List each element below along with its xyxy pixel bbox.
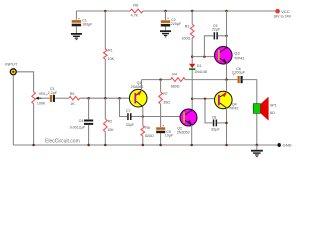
svg-text:ElecCircuit.com: ElecCircuit.com	[45, 139, 80, 145]
wire VR1 wiper to C3	[41, 97, 50, 99]
input jack	[10, 69, 16, 75]
wire output rail (Q1 top lead to C6)	[142, 79, 171, 81]
svg-text:VR1: VR1	[39, 92, 46, 96]
node rail/R3 junction	[191, 10, 194, 13]
wire C6 to speaker corner	[243, 80, 257, 145]
svg-text:4.7K: 4.7K	[131, 13, 139, 17]
capacitor C4	[70, 98, 94, 145]
wire top supply rail	[76, 10, 130, 12]
svg-text:R6: R6	[133, 3, 139, 8]
wire Q1 top lead to output rail	[141, 80, 143, 91]
node R2 ground junction	[104, 144, 107, 147]
svg-text:10K: 10K	[108, 57, 115, 61]
wire Q4 emitter down	[226, 108, 228, 145]
wire base rail R5 to Q1	[80, 97, 130, 99]
svg-text:SP1: SP1	[270, 103, 277, 107]
node Q2 emitter ground junction	[190, 144, 193, 147]
capacitor C9	[156, 123, 174, 138]
node output junction	[225, 78, 228, 81]
wire C9 bottom	[160, 133, 162, 145]
transistor Q1 2SA561	[129, 81, 147, 107]
svg-text:R8: R8	[145, 126, 150, 130]
node rail corner junction	[225, 10, 228, 13]
svg-text:C7: C7	[126, 109, 131, 113]
svg-text:0.0012µF: 0.0012µF	[70, 126, 86, 130]
node speaker ground junction	[256, 144, 259, 147]
wire R8 bottom	[142, 136, 144, 145]
svg-text:VCC: VCC	[281, 9, 290, 14]
svg-text:82µF: 82µF	[211, 127, 220, 131]
node R1/R2 junction	[104, 97, 107, 100]
node Q4 base node	[191, 97, 194, 100]
wire C8 to Q4 emitter column	[217, 122, 226, 124]
capacitor C8	[205, 99, 220, 132]
ground (under C1)	[71, 33, 82, 40]
wire R7 to C9	[160, 104, 162, 127]
wire Q3 emitter to output node	[226, 63, 228, 79]
svg-text:TIP41: TIP41	[234, 56, 245, 61]
wire C5 branch	[204, 36, 213, 57]
wire VR1 bottom to ground rail	[33, 104, 35, 145]
wire R2 bottom	[104, 132, 106, 145]
svg-text:GND: GND	[283, 143, 292, 148]
node C5 left junction	[203, 55, 206, 58]
node C4 junction	[87, 97, 90, 100]
transistor Q2 2N3053	[177, 109, 197, 135]
capacitor C3	[46, 87, 58, 102]
svg-text:R7: R7	[163, 92, 168, 96]
node Q3 base node	[191, 55, 194, 58]
svg-text:100µF: 100µF	[82, 22, 93, 26]
wire D1 bottom down to Q2 collector	[191, 70, 193, 110]
wire R1 column upper	[104, 11, 106, 49]
resistor R3	[190, 24, 194, 38]
resistor R2	[104, 119, 108, 132]
svg-text:39Ω: 39Ω	[163, 101, 170, 105]
svg-text:2.2µF: 2.2µF	[48, 91, 58, 95]
resistor R1	[104, 49, 108, 59]
wire R7 top	[160, 80, 162, 92]
svg-text:1N4148: 1N4148	[194, 70, 207, 74]
transistor Q3 TIP41	[215, 47, 246, 65]
node VCC	[275, 9, 280, 14]
node rail/R1 junction	[104, 10, 107, 13]
wire top rail right of R6 to VCC	[143, 10, 277, 12]
svg-text:C4: C4	[79, 119, 84, 123]
svg-text:680Ω: 680Ω	[171, 84, 180, 88]
wire input to VR1 column	[17, 72, 34, 92]
node Q1 collector junction	[142, 115, 145, 118]
wire Q3 base wire	[192, 56, 214, 58]
node R8 ground junction	[142, 144, 145, 147]
wire Q4 collector to output node	[226, 80, 228, 93]
svg-text:R3: R3	[185, 24, 190, 28]
svg-text:2,200µF: 2,200µF	[232, 71, 246, 75]
potentiometer VR1	[32, 92, 46, 106]
node R7 top junction	[159, 78, 162, 81]
transistor Q4 TIP42	[215, 91, 239, 110]
wire C7 to Q2 base	[132, 116, 181, 118]
ground (bottom, below rail)	[251, 145, 263, 157]
svg-text:22µF: 22µF	[212, 28, 221, 32]
ground (under C2)	[160, 30, 171, 37]
diode D1 1N4148	[189, 64, 207, 74]
wire R2 top	[104, 98, 106, 119]
node Q4 emitter ground junction	[225, 144, 228, 147]
node VR1 ground junction	[32, 144, 35, 147]
node C5/collector junction	[225, 35, 228, 38]
svg-text:2N3053: 2N3053	[177, 131, 190, 135]
wire rail to R3	[191, 11, 193, 24]
svg-text:TIP42: TIP42	[229, 107, 239, 111]
resistor R8	[141, 126, 145, 137]
svg-text:100Ω: 100Ω	[182, 37, 191, 41]
capacitor C6	[232, 67, 246, 83]
wire R3 to Q3 base node	[191, 38, 193, 64]
resistor R4	[171, 78, 186, 82]
svg-text:10K: 10K	[107, 128, 114, 132]
wire Q3 collector column	[226, 11, 228, 48]
svg-text:18V to 24V: 18V to 24V	[273, 14, 291, 18]
capacitor C1	[72, 11, 93, 33]
capacitor C5	[212, 24, 221, 40]
capacitor C7	[120, 98, 135, 127]
wire C5 right to Q3 collector column	[218, 35, 227, 37]
svg-text:D1: D1	[197, 64, 202, 68]
node C8 top junction	[204, 97, 207, 100]
svg-text:1K: 1K	[70, 102, 75, 106]
svg-text:C8: C8	[212, 116, 217, 120]
svg-text:R4: R4	[172, 72, 177, 76]
svg-text:R1: R1	[108, 48, 113, 52]
wire R8 top	[142, 117, 144, 126]
svg-text:33µF: 33µF	[126, 123, 135, 127]
svg-text:R2: R2	[108, 119, 113, 123]
wire Q4 base wire	[192, 98, 214, 100]
node C4 ground junction	[87, 144, 90, 147]
capacitor C2	[161, 10, 182, 31]
svg-text:10µF: 10µF	[165, 134, 174, 138]
svg-text:820Ω: 820Ω	[145, 134, 154, 138]
svg-text:Q3: Q3	[234, 50, 240, 55]
wire R1 to base rail	[104, 59, 106, 98]
wire input ground side	[12, 75, 14, 145]
node C9 ground junction	[159, 144, 162, 147]
node C7 junction	[118, 97, 121, 100]
node GND terminal	[278, 143, 281, 147]
node C8/emitter junction	[225, 122, 228, 125]
svg-text:100K: 100K	[37, 102, 46, 106]
svg-text:INPUT: INPUT	[5, 61, 18, 66]
resistor R7	[159, 92, 163, 104]
wire Q1 bottom lead to C7 node	[142, 107, 144, 117]
speaker SP1	[253, 97, 277, 121]
wire Q2 emitter to ground rail	[191, 125, 193, 145]
svg-text:R5: R5	[70, 92, 75, 96]
resistor R5	[69, 96, 80, 100]
wire ground rail bottom	[13, 144, 279, 146]
svg-text:8Ω: 8Ω	[270, 111, 275, 115]
resistor R6	[130, 9, 143, 13]
svg-text:220µF: 220µF	[171, 22, 182, 26]
wire C3 to R5	[55, 97, 69, 99]
